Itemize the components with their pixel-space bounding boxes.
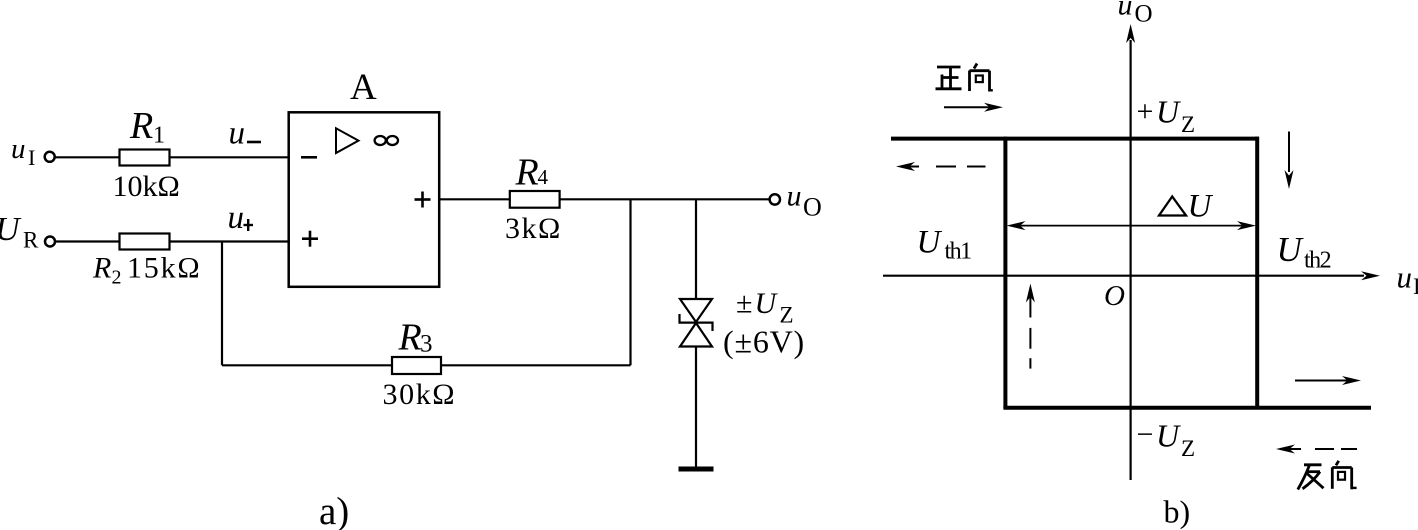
svg-text:(±6V): (±6V) bbox=[723, 324, 805, 360]
svg-text:R: R bbox=[398, 317, 422, 359]
axis label uI bbox=[1397, 260, 1418, 300]
resistor R3 bbox=[392, 357, 441, 374]
terminal uO bbox=[770, 194, 780, 204]
op-amp triangle symbol bbox=[336, 128, 359, 153]
svg-text:a): a) bbox=[319, 490, 349, 530]
label Uth1 bbox=[917, 225, 972, 265]
label -UZ bbox=[1137, 418, 1196, 462]
op-amp A box bbox=[289, 112, 440, 286]
wire feedback bottom left segment bbox=[222, 364, 392, 366]
svg-text:2: 2 bbox=[112, 267, 122, 289]
op-amp plus input sign bbox=[302, 231, 318, 247]
junction at feedback tap bbox=[221, 242, 223, 366]
wire UR to R2 bbox=[55, 240, 120, 242]
label R1 bbox=[129, 105, 165, 149]
svg-text:u: u bbox=[1397, 260, 1413, 295]
svg-text:I: I bbox=[1413, 274, 1418, 299]
downward jump arrow at Uth2 bbox=[1288, 132, 1290, 173]
delta U double arrow bbox=[1018, 225, 1244, 227]
svg-text:A: A bbox=[350, 67, 377, 108]
transfer curve left vertical at Uth1 bbox=[1003, 137, 1007, 408]
node uI input label bbox=[11, 133, 35, 170]
node u- label bbox=[229, 116, 246, 152]
svg-text:3kΩ: 3kΩ bbox=[505, 212, 562, 245]
label R3 bbox=[398, 317, 433, 359]
svg-text:15kΩ: 15kΩ bbox=[127, 252, 202, 285]
node u+ label bbox=[228, 200, 245, 236]
resistor R1 bbox=[120, 150, 170, 166]
svg-text:U: U bbox=[755, 287, 779, 320]
transfer curve bottom segment -UZ bbox=[1003, 406, 1371, 410]
svg-text:Z: Z bbox=[1181, 436, 1195, 461]
resistor R2 bbox=[120, 234, 170, 250]
wire feedback bottom right segment bbox=[441, 364, 631, 366]
wire uI to R1 bbox=[55, 156, 120, 158]
svg-text:u: u bbox=[1118, 0, 1133, 22]
svg-text:U: U bbox=[0, 211, 22, 248]
svg-text:b): b) bbox=[1164, 494, 1191, 530]
wire R1 to op-amp inverting input bbox=[170, 156, 291, 158]
svg-text:4: 4 bbox=[538, 165, 549, 189]
svg-text:O: O bbox=[803, 193, 822, 222]
svg-text:u: u bbox=[229, 116, 246, 152]
forward dashed return arrow bbox=[908, 166, 986, 168]
wire output to zener bbox=[695, 199, 697, 300]
reverse solid arrow bbox=[1295, 380, 1348, 382]
op-amp output plus sign bbox=[415, 192, 431, 208]
zener bar bbox=[680, 314, 713, 331]
svg-text:±: ± bbox=[736, 287, 752, 320]
value 10k ohm bbox=[113, 170, 180, 203]
svg-text:10kΩ: 10kΩ bbox=[113, 170, 180, 203]
svg-text:R: R bbox=[129, 105, 153, 147]
label +UZ bbox=[1137, 94, 1196, 138]
chinese label reverse (fan xiang) bbox=[1298, 461, 1357, 490]
svg-text:U: U bbox=[917, 225, 943, 261]
transfer curve right vertical at Uth2 bbox=[1255, 137, 1259, 408]
svg-text:Z: Z bbox=[1181, 112, 1195, 137]
node UR input label bbox=[0, 211, 39, 253]
resistor R4 bbox=[510, 191, 560, 208]
svg-text:U: U bbox=[1188, 189, 1214, 225]
chinese label forward (zheng xiang) bbox=[936, 64, 993, 92]
svg-text:R: R bbox=[92, 252, 111, 285]
svg-text:O: O bbox=[1104, 280, 1125, 312]
zener diode VZ bottom triangle bbox=[680, 323, 712, 347]
value +-6V bbox=[723, 324, 805, 360]
wire feedback down from output bbox=[629, 199, 631, 365]
wire R2 to op-amp non-inverting input bbox=[170, 240, 291, 242]
svg-text:30kΩ: 30kΩ bbox=[383, 378, 457, 411]
terminal UR bbox=[45, 237, 55, 247]
svg-text:R: R bbox=[23, 228, 39, 253]
op-amp minus input sign bbox=[301, 156, 317, 159]
svg-text:+: + bbox=[1137, 95, 1154, 128]
label A bbox=[350, 67, 377, 108]
op-amp infinity gain symbol bbox=[375, 136, 386, 145]
caption a) bbox=[319, 490, 349, 530]
value 3k ohm bbox=[505, 212, 562, 245]
origin O label bbox=[1104, 280, 1125, 312]
label Uth2 bbox=[1277, 230, 1331, 274]
svg-text:u: u bbox=[11, 133, 26, 165]
terminal uI bbox=[45, 152, 55, 162]
label R4 bbox=[515, 152, 549, 194]
zener diode VZ top triangle bbox=[680, 299, 712, 322]
svg-text:R: R bbox=[515, 152, 539, 194]
value 30k ohm bbox=[383, 378, 457, 411]
svg-text:th1: th1 bbox=[945, 239, 972, 265]
svg-text:U: U bbox=[1277, 230, 1305, 269]
upward dashed jump arrow at Uth1 bbox=[1029, 296, 1031, 369]
svg-text:3: 3 bbox=[420, 331, 433, 358]
wire op-amp output to R4 bbox=[439, 198, 510, 200]
axis label uO bbox=[1118, 0, 1153, 28]
transfer curve top segment +UZ bbox=[891, 137, 1259, 141]
wire R4 to output terminal bbox=[560, 198, 770, 200]
node uO label bbox=[787, 180, 822, 222]
wire zener to ground bbox=[695, 347, 697, 468]
svg-text:O: O bbox=[1135, 1, 1153, 28]
svg-text:th2: th2 bbox=[1304, 248, 1331, 274]
reverse dashed arrow bbox=[1289, 448, 1357, 450]
forward solid arrow bbox=[944, 106, 991, 108]
uO axis (vertical) bbox=[1129, 40, 1131, 480]
svg-text:U: U bbox=[1156, 94, 1181, 130]
svg-text:u: u bbox=[228, 200, 245, 236]
ground bbox=[679, 467, 714, 472]
caption b) bbox=[1164, 494, 1191, 530]
svg-text:U: U bbox=[1156, 418, 1181, 454]
label delta U bbox=[1159, 197, 1186, 216]
svg-text:1: 1 bbox=[153, 123, 165, 149]
svg-text:u: u bbox=[787, 180, 802, 213]
uI axis (horizontal) bbox=[883, 275, 1364, 277]
svg-text:−: − bbox=[1137, 418, 1154, 451]
label +-UZ bbox=[736, 287, 794, 328]
svg-text:I: I bbox=[28, 145, 35, 170]
label R2 15k ohm bbox=[92, 252, 202, 289]
